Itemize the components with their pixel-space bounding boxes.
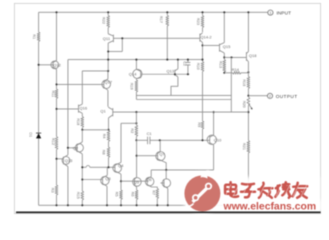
svg-text:Q11: Q11 bbox=[103, 36, 111, 41]
svg-text:Q10: Q10 bbox=[214, 137, 222, 142]
svg-text:R16: R16 bbox=[242, 79, 246, 86]
svg-text:D1: D1 bbox=[29, 132, 33, 137]
svg-text:R6: R6 bbox=[130, 192, 134, 197]
svg-text:Q14: Q14 bbox=[129, 71, 137, 76]
svg-text:R17: R17 bbox=[159, 16, 163, 23]
svg-text:C1: C1 bbox=[147, 131, 152, 136]
svg-text:R1: R1 bbox=[32, 34, 36, 39]
svg-text:R22: R22 bbox=[101, 17, 105, 24]
svg-text:Q1: Q1 bbox=[100, 109, 106, 114]
svg-text:R20: R20 bbox=[242, 101, 246, 108]
svg-text:C2: C2 bbox=[182, 62, 186, 66]
svg-text:R12: R12 bbox=[51, 138, 55, 145]
svg-text:Q14-2: Q14-2 bbox=[201, 34, 213, 39]
svg-text:R4: R4 bbox=[102, 134, 106, 139]
svg-text:R15: R15 bbox=[76, 192, 80, 199]
svg-text:R2: R2 bbox=[130, 128, 134, 133]
svg-text:Q7: Q7 bbox=[159, 151, 165, 156]
svg-text:Q5: Q5 bbox=[134, 179, 140, 184]
svg-text:R18: R18 bbox=[76, 118, 80, 125]
svg-text:www.elecfans.com: www.elecfans.com bbox=[223, 202, 317, 213]
svg-text:Q13: Q13 bbox=[65, 158, 73, 163]
svg-text:R3: R3 bbox=[51, 188, 55, 193]
svg-text:R8: R8 bbox=[102, 150, 106, 155]
svg-text:Q13: Q13 bbox=[167, 69, 175, 74]
svg-text:Q16: Q16 bbox=[80, 105, 88, 110]
svg-text:R5: R5 bbox=[115, 192, 119, 197]
svg-text:1: 1 bbox=[269, 11, 271, 15]
svg-text:R21: R21 bbox=[242, 143, 246, 150]
svg-text:R14: R14 bbox=[232, 68, 239, 72]
svg-text:OUTPUT: OUTPUT bbox=[276, 94, 298, 99]
svg-text:R19: R19 bbox=[129, 83, 133, 90]
svg-text:Q17: Q17 bbox=[105, 79, 113, 84]
svg-text:2: 2 bbox=[269, 94, 271, 98]
svg-text:Q18: Q18 bbox=[249, 53, 257, 58]
svg-text:R10: R10 bbox=[196, 63, 200, 70]
svg-text:Q4: Q4 bbox=[118, 163, 124, 168]
svg-text:Q12: Q12 bbox=[53, 62, 61, 67]
svg-text:Q15: Q15 bbox=[223, 44, 231, 49]
svg-text:R7: R7 bbox=[152, 190, 156, 195]
svg-text:R11: R11 bbox=[51, 90, 55, 97]
svg-text:Q6: Q6 bbox=[146, 177, 152, 182]
svg-text:R9: R9 bbox=[197, 122, 201, 127]
svg-text:R13: R13 bbox=[218, 61, 222, 68]
svg-text:Q2: Q2 bbox=[73, 145, 79, 150]
svg-text:R23: R23 bbox=[196, 18, 200, 25]
svg-text:Q3: Q3 bbox=[105, 176, 111, 181]
svg-text:INPUT: INPUT bbox=[277, 11, 292, 16]
